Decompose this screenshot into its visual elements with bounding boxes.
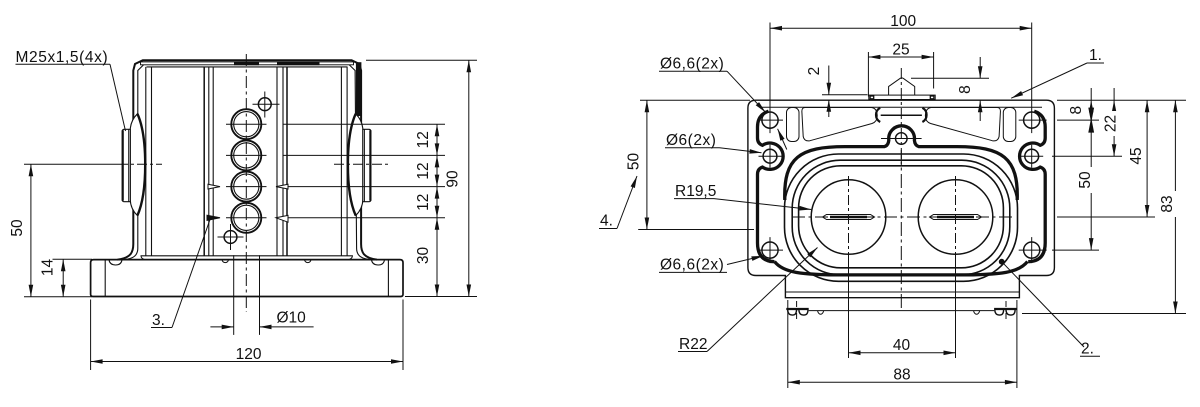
- right gland boss thick edge: [348, 114, 356, 216]
- left tower inner wall b: [151, 67, 153, 256]
- big pocket right: [925, 108, 1000, 141]
- gland centerline left: [24, 163, 118, 165]
- svg-text:40: 40: [893, 337, 911, 354]
- gland centerline right: [334, 163, 389, 165]
- dimension 50 left side: [638, 100, 754, 229]
- col 8/50: [1090, 100, 1092, 250]
- svg-text:12: 12: [415, 162, 432, 179]
- dimension 12/12/12/30 column: [436, 124, 438, 296]
- svg-text:50: 50: [626, 153, 643, 171]
- strip right wall lines: [276, 67, 278, 256]
- svg-text:100: 100: [890, 13, 916, 30]
- body roof inner line: [147, 66, 348, 68]
- small hole right: [1025, 149, 1039, 163]
- row line c1: [283, 123, 445, 125]
- dimension 8 top: [911, 57, 989, 121]
- neck bottom line: [881, 114, 922, 116]
- col A/B upper extensions: [1090, 88, 1092, 100]
- vertical centerline: [245, 54, 247, 312]
- svg-text:2: 2: [806, 67, 823, 76]
- svg-text:Ø10: Ø10: [277, 310, 307, 327]
- strip left open arrow c3: [208, 184, 220, 189]
- svg-text:12: 12: [415, 131, 432, 148]
- strip left solid arrow c4: [207, 215, 220, 220]
- terminal circle 4: [231, 203, 261, 233]
- base small bump right: [305, 260, 312, 263]
- dimension 88 bottom: [788, 300, 1017, 388]
- svg-text:90: 90: [445, 170, 462, 188]
- feet right: [994, 308, 1016, 310]
- tab end bracket right: [930, 96, 934, 99]
- dimension 14 left: [53, 259, 93, 297]
- col 83: [1174, 100, 1176, 313]
- dimension 50 left: [24, 164, 92, 296]
- feet centerline right: [1005, 301, 1007, 320]
- tab end bracket left: [870, 96, 874, 99]
- ext small hole: [1052, 155, 1122, 157]
- right gland cap thick edge: [369, 130, 371, 200]
- base inner wall left: [104, 260, 106, 297]
- dimension 25 top: [868, 52, 933, 97]
- neck crescent right: [922, 108, 926, 122]
- neck crescent left: [876, 108, 880, 122]
- slot left: [823, 215, 875, 220]
- ext slot center: [1057, 216, 1155, 218]
- stadium outline A: [785, 154, 1018, 281]
- row line c2: [283, 154, 445, 156]
- hole bottom-right: [1024, 242, 1040, 258]
- dimension 40 bottom: [849, 262, 956, 358]
- hole crosshairs: [757, 107, 1047, 263]
- svg-text:Ø6,6(2x): Ø6,6(2x): [660, 55, 724, 72]
- svg-text:14: 14: [40, 259, 57, 277]
- hole top-right: [1024, 112, 1040, 128]
- right tower inner wall b: [340, 67, 342, 256]
- hole bottom-left: [762, 242, 778, 258]
- vertical center dashdot: [900, 68, 902, 165]
- svg-text:25: 25: [892, 41, 909, 58]
- left tower inner wall a: [145, 67, 147, 256]
- svg-text:83: 83: [1159, 195, 1176, 212]
- left gland boss thick edge: [137, 114, 145, 216]
- centerlines left view: [24, 54, 389, 312]
- screw hole bottom: [224, 231, 237, 244]
- body outline: [118, 60, 377, 259]
- svg-text:4.: 4.: [600, 213, 613, 230]
- svg-text:8: 8: [1068, 106, 1085, 115]
- svg-text:12: 12: [415, 194, 432, 211]
- body inner top line left: [125, 65, 144, 260]
- inner ledge above base: [141, 255, 353, 257]
- col 45: [1146, 100, 1148, 217]
- membrane circle left: [811, 180, 886, 255]
- bottom notch left: [818, 311, 824, 315]
- svg-text:120: 120: [236, 346, 262, 363]
- feet left: [786, 308, 808, 310]
- terminal circle 3: [231, 172, 261, 202]
- hole top-left: [762, 112, 778, 128]
- ext bottom hole center: [1052, 249, 1099, 251]
- terminal circle 1: [231, 109, 261, 139]
- circle left vertical centerline: [848, 176, 850, 262]
- right gland boss lens: [348, 114, 363, 216]
- left gland cap inner line: [128, 129, 130, 201]
- right channel path: [1020, 111, 1046, 262]
- gasket bottom run: [775, 262, 1028, 275]
- left channel path: [758, 111, 784, 262]
- extension rows to right dims: [207, 124, 445, 222]
- base small bump left: [222, 260, 229, 263]
- svg-text:3.: 3.: [152, 312, 165, 329]
- gasket channel left (thick): [758, 111, 1046, 275]
- bottom notch right: [974, 311, 980, 315]
- terminal circles column: [218, 92, 280, 251]
- row line c4 with open arrow: [276, 217, 445, 219]
- svg-text:50: 50: [1077, 171, 1094, 189]
- right lid edge dark band: [356, 62, 362, 116]
- left gland cap: [122, 129, 130, 201]
- bottom thin line: [809, 310, 994, 312]
- top gasket band outline: [141, 62, 354, 65]
- center small hole: [881, 133, 922, 145]
- dimension 120 bottom: [91, 300, 403, 371]
- svg-text:8: 8: [957, 85, 974, 94]
- body inner top line right: [349, 65, 370, 260]
- right gland cap: [363, 129, 371, 201]
- corner holes: [762, 112, 1040, 258]
- base flange outline: [91, 260, 403, 297]
- svg-text:45: 45: [1128, 147, 1145, 164]
- svg-text:R22: R22: [679, 336, 707, 353]
- left gland cap thick edge: [122, 130, 124, 200]
- svg-text:30: 30: [415, 247, 432, 265]
- base top notch right: [372, 260, 385, 265]
- centerlines right view: [792, 68, 1012, 320]
- pocket area top line: [760, 106, 1042, 108]
- svg-text:88: 88: [893, 367, 910, 384]
- stadium outline C: [799, 166, 1004, 268]
- row line c3 with open arrow: [276, 186, 445, 188]
- right dims shared top extension: [1022, 88, 1186, 314]
- slot right: [930, 215, 982, 220]
- stadium raised boss: [785, 154, 1018, 281]
- bottom body details: [785, 292, 1019, 315]
- svg-text:2.: 2.: [1081, 340, 1094, 357]
- membrane circle right: [918, 180, 993, 255]
- svg-text:50: 50: [9, 219, 26, 237]
- strip left wall lines: [203, 67, 205, 256]
- dimension 90 right: [366, 60, 477, 296]
- circle crosshair stubs: [226, 123, 267, 125]
- svg-text:Ø6(2x): Ø6(2x): [666, 132, 716, 149]
- small hole left: [763, 149, 777, 163]
- terminal circle 2: [231, 140, 261, 170]
- feet centerline left: [796, 301, 798, 320]
- top gasket black segment right: [277, 62, 320, 66]
- svg-text:1.: 1.: [1089, 47, 1102, 64]
- second pointer at hole lower-right: [778, 129, 787, 150]
- ext hole center: [1057, 119, 1099, 121]
- svg-text:R19,5: R19,5: [675, 183, 716, 200]
- col 22: [1113, 100, 1115, 156]
- base top notch left: [109, 260, 122, 265]
- tab hat: [889, 78, 915, 95]
- big pocket left: [802, 108, 877, 141]
- svg-text:M25x1,5(4x): M25x1,5(4x): [16, 49, 109, 66]
- right tower inner wall a: [346, 67, 348, 256]
- ext bottom feet: [1022, 313, 1186, 315]
- top mounting tab strip: [869, 78, 935, 100]
- right gland cap inner line: [363, 129, 365, 201]
- plate outline with bottom body step: [748, 100, 1055, 298]
- top gasket black segment left: [234, 62, 259, 66]
- stadium outline B: [792, 160, 1010, 275]
- narrow pocket right: [1003, 108, 1016, 142]
- inner step line: [785, 291, 1019, 293]
- screw hole top: [258, 98, 271, 111]
- dimension 2 top: [822, 66, 868, 118]
- gasket top run with arch over centre hole: [785, 126, 1018, 200]
- base inner wall right: [387, 260, 389, 297]
- svg-text:22: 22: [1103, 115, 1120, 132]
- dimension diameter 10: [210, 255, 313, 335]
- narrow pocket left: [787, 108, 800, 142]
- svg-text:Ø6,6(2x): Ø6,6(2x): [660, 257, 724, 274]
- dimension 100 top: [770, 23, 1032, 108]
- left gland boss lens: [130, 114, 145, 216]
- horizontal circles centerline: [792, 216, 1012, 218]
- circle right vertical centerline: [955, 176, 957, 262]
